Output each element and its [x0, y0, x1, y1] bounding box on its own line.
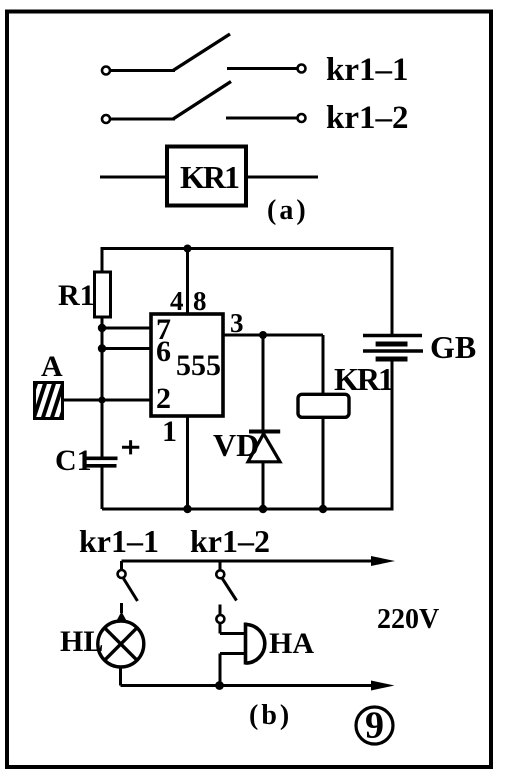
svg-text:KR1: KR1	[334, 361, 393, 397]
bottom line with arrow	[121, 681, 395, 691]
wire right of coil KR1	[246, 176, 318, 179]
svg-text:C1: C1	[55, 444, 92, 477]
wire VD branch	[262, 335, 265, 509]
wire R1 bottom to C1	[101, 317, 104, 458]
top supply rail	[102, 247, 392, 250]
svg-text:kr1–1: kr1–1	[79, 523, 159, 559]
horn HA	[246, 623, 265, 665]
contact kr1-1 (section b)	[116, 561, 138, 623]
wire rail to battery	[391, 247, 394, 336]
contact kr1-2 (section a)	[102, 82, 306, 124]
relay coil KR1 (driver)	[298, 394, 349, 417]
wire pin 3	[223, 334, 323, 337]
node bottom line junction	[215, 681, 224, 690]
wire lamp to bottom line	[119, 667, 122, 686]
node VD top junction	[259, 331, 267, 339]
svg-text:8: 8	[193, 286, 207, 316]
contact kr1-1 (section a)	[102, 34, 306, 75]
bottom rail	[102, 508, 392, 511]
node VD bottom junction	[259, 505, 267, 513]
node pin1 bottom junction	[183, 505, 191, 513]
svg-text:R1: R1	[58, 279, 95, 312]
wire KR1 coil branch bottom	[322, 417, 325, 509]
svg-text:(b): (b)	[249, 700, 292, 731]
svg-text:GB: GB	[430, 329, 476, 365]
top line 220V with arrow	[122, 556, 396, 566]
svg-text:4: 4	[170, 286, 184, 316]
polarity plus sign	[122, 440, 139, 454]
svg-text:6: 6	[156, 335, 171, 368]
node pin7 junction	[98, 324, 106, 332]
node pin6 junction	[98, 344, 106, 352]
svg-text:555: 555	[176, 349, 221, 382]
wire horn lower lead to bottom line	[220, 654, 246, 686]
wire pin 2 from A	[64, 399, 151, 402]
wire left of coil KR1	[100, 176, 167, 179]
node KR1 bottom junction	[319, 505, 327, 513]
wire top rail to R1	[101, 247, 104, 273]
resistor R1	[95, 272, 111, 317]
figure number 9	[356, 705, 393, 747]
svg-text:A: A	[41, 350, 63, 383]
contact kr1-2 (section b)	[216, 561, 236, 623]
lamp HL	[98, 621, 144, 667]
svg-text:VD: VD	[213, 427, 259, 463]
svg-text:HA: HA	[269, 627, 314, 660]
wire C1 to bottom rail	[101, 466, 104, 509]
wire pins 4,8 to rail	[186, 249, 189, 315]
diode VD	[248, 432, 280, 462]
svg-text:(a): (a)	[267, 195, 309, 226]
wire pin 1	[186, 416, 189, 509]
svg-text:220V: 220V	[377, 604, 439, 635]
battery GB	[363, 336, 423, 360]
svg-text:kr1–2: kr1–2	[190, 523, 270, 559]
wire contact to horn upper lead	[220, 624, 246, 634]
svg-text:9: 9	[365, 705, 384, 747]
svg-text:KR1: KR1	[180, 159, 239, 195]
relay coil KR1	[167, 147, 246, 206]
capacitor C1	[84, 458, 118, 466]
sensor plate A	[28, 379, 78, 422]
svg-text:kr1–1: kr1–1	[326, 52, 409, 88]
wire pin 7	[102, 327, 151, 330]
svg-text:1: 1	[162, 415, 177, 448]
svg-text:2: 2	[156, 382, 171, 415]
wire KR1 coil branch top	[322, 335, 325, 394]
wire battery to bottom rail	[391, 359, 394, 511]
svg-text:kr1–2: kr1–2	[326, 100, 409, 136]
node rail junction	[184, 245, 192, 253]
op-amp U1 555 timer box	[151, 313, 223, 416]
wire pin 6	[102, 347, 151, 350]
node pin2 / C1 junction	[98, 396, 105, 403]
